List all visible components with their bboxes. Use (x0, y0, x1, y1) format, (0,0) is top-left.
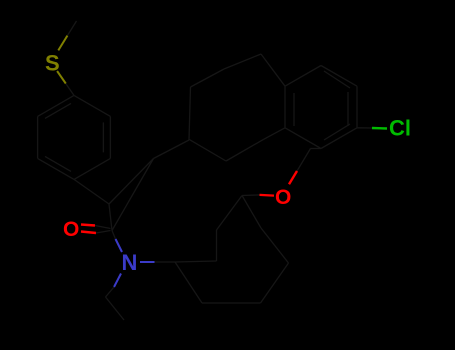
svg-text:Cl: Cl (389, 116, 411, 141)
S to ring bond olive half (57, 71, 66, 84)
svg-text:N: N (122, 250, 138, 275)
S to ring bond dark half (66, 84, 74, 96)
aromatic inner lines (293, 93, 295, 126)
C2-N bond dark half (112, 231, 116, 240)
C4-C4a bond (154, 140, 190, 159)
N-CH2 right bond blue half (140, 261, 155, 263)
C2-N bond blue half (116, 239, 123, 252)
C=O double bond red halves (81, 225, 95, 226)
C=O double bond dark halves (95, 226, 111, 229)
S-CH3 bond olive half (58, 36, 67, 51)
C7 to chlorophenyl (261, 54, 285, 86)
N-ethyl bond blue half (114, 274, 121, 288)
thiomethylphenyl ring (38, 95, 111, 179)
lower ring edge up-left (261, 228, 289, 263)
N-ethyl bond dark half (106, 287, 115, 297)
bridge chain C4a down-right (189, 139, 226, 161)
lower ring bottom edge (202, 302, 261, 304)
bond to N-CH2 (175, 261, 217, 262)
C5-C6 bond (191, 69, 225, 87)
short vertical bond (216, 230, 218, 261)
N-CH2 right bond dark half (155, 261, 176, 263)
C6-C7 bond (224, 54, 261, 69)
bond back to CH2 (242, 196, 261, 229)
svg-text:O: O (275, 186, 291, 209)
aromatic inner lines (102, 122, 104, 152)
Cl bond green half (372, 127, 387, 130)
bridge short bond (109, 204, 112, 231)
bridge long bond upper (109, 159, 154, 205)
methyl CH3 on S (dark half) (67, 21, 76, 36)
ethyl CH3 (106, 297, 125, 320)
CH2 down-left bond (217, 196, 243, 231)
bridge chain to ring (264, 128, 285, 140)
O-CH2 bond dark half (242, 194, 260, 197)
ring to bridge CH (74, 179, 109, 204)
carbonyl C to C4 long bond (112, 159, 154, 231)
C4a-C5 vertical bond (189, 87, 191, 140)
lower ring edge up-right (261, 263, 289, 303)
lower ring edge 1 (175, 262, 202, 303)
O-CH2 bond red half (260, 194, 275, 197)
ring to O bond dark half (311, 148, 322, 150)
chlorophenyl ring (285, 66, 357, 149)
svg-text:O: O (63, 218, 79, 241)
Cl bond dark half (357, 127, 372, 129)
ring to O bond red half (289, 171, 297, 184)
bridge chain up-right (226, 139, 264, 161)
